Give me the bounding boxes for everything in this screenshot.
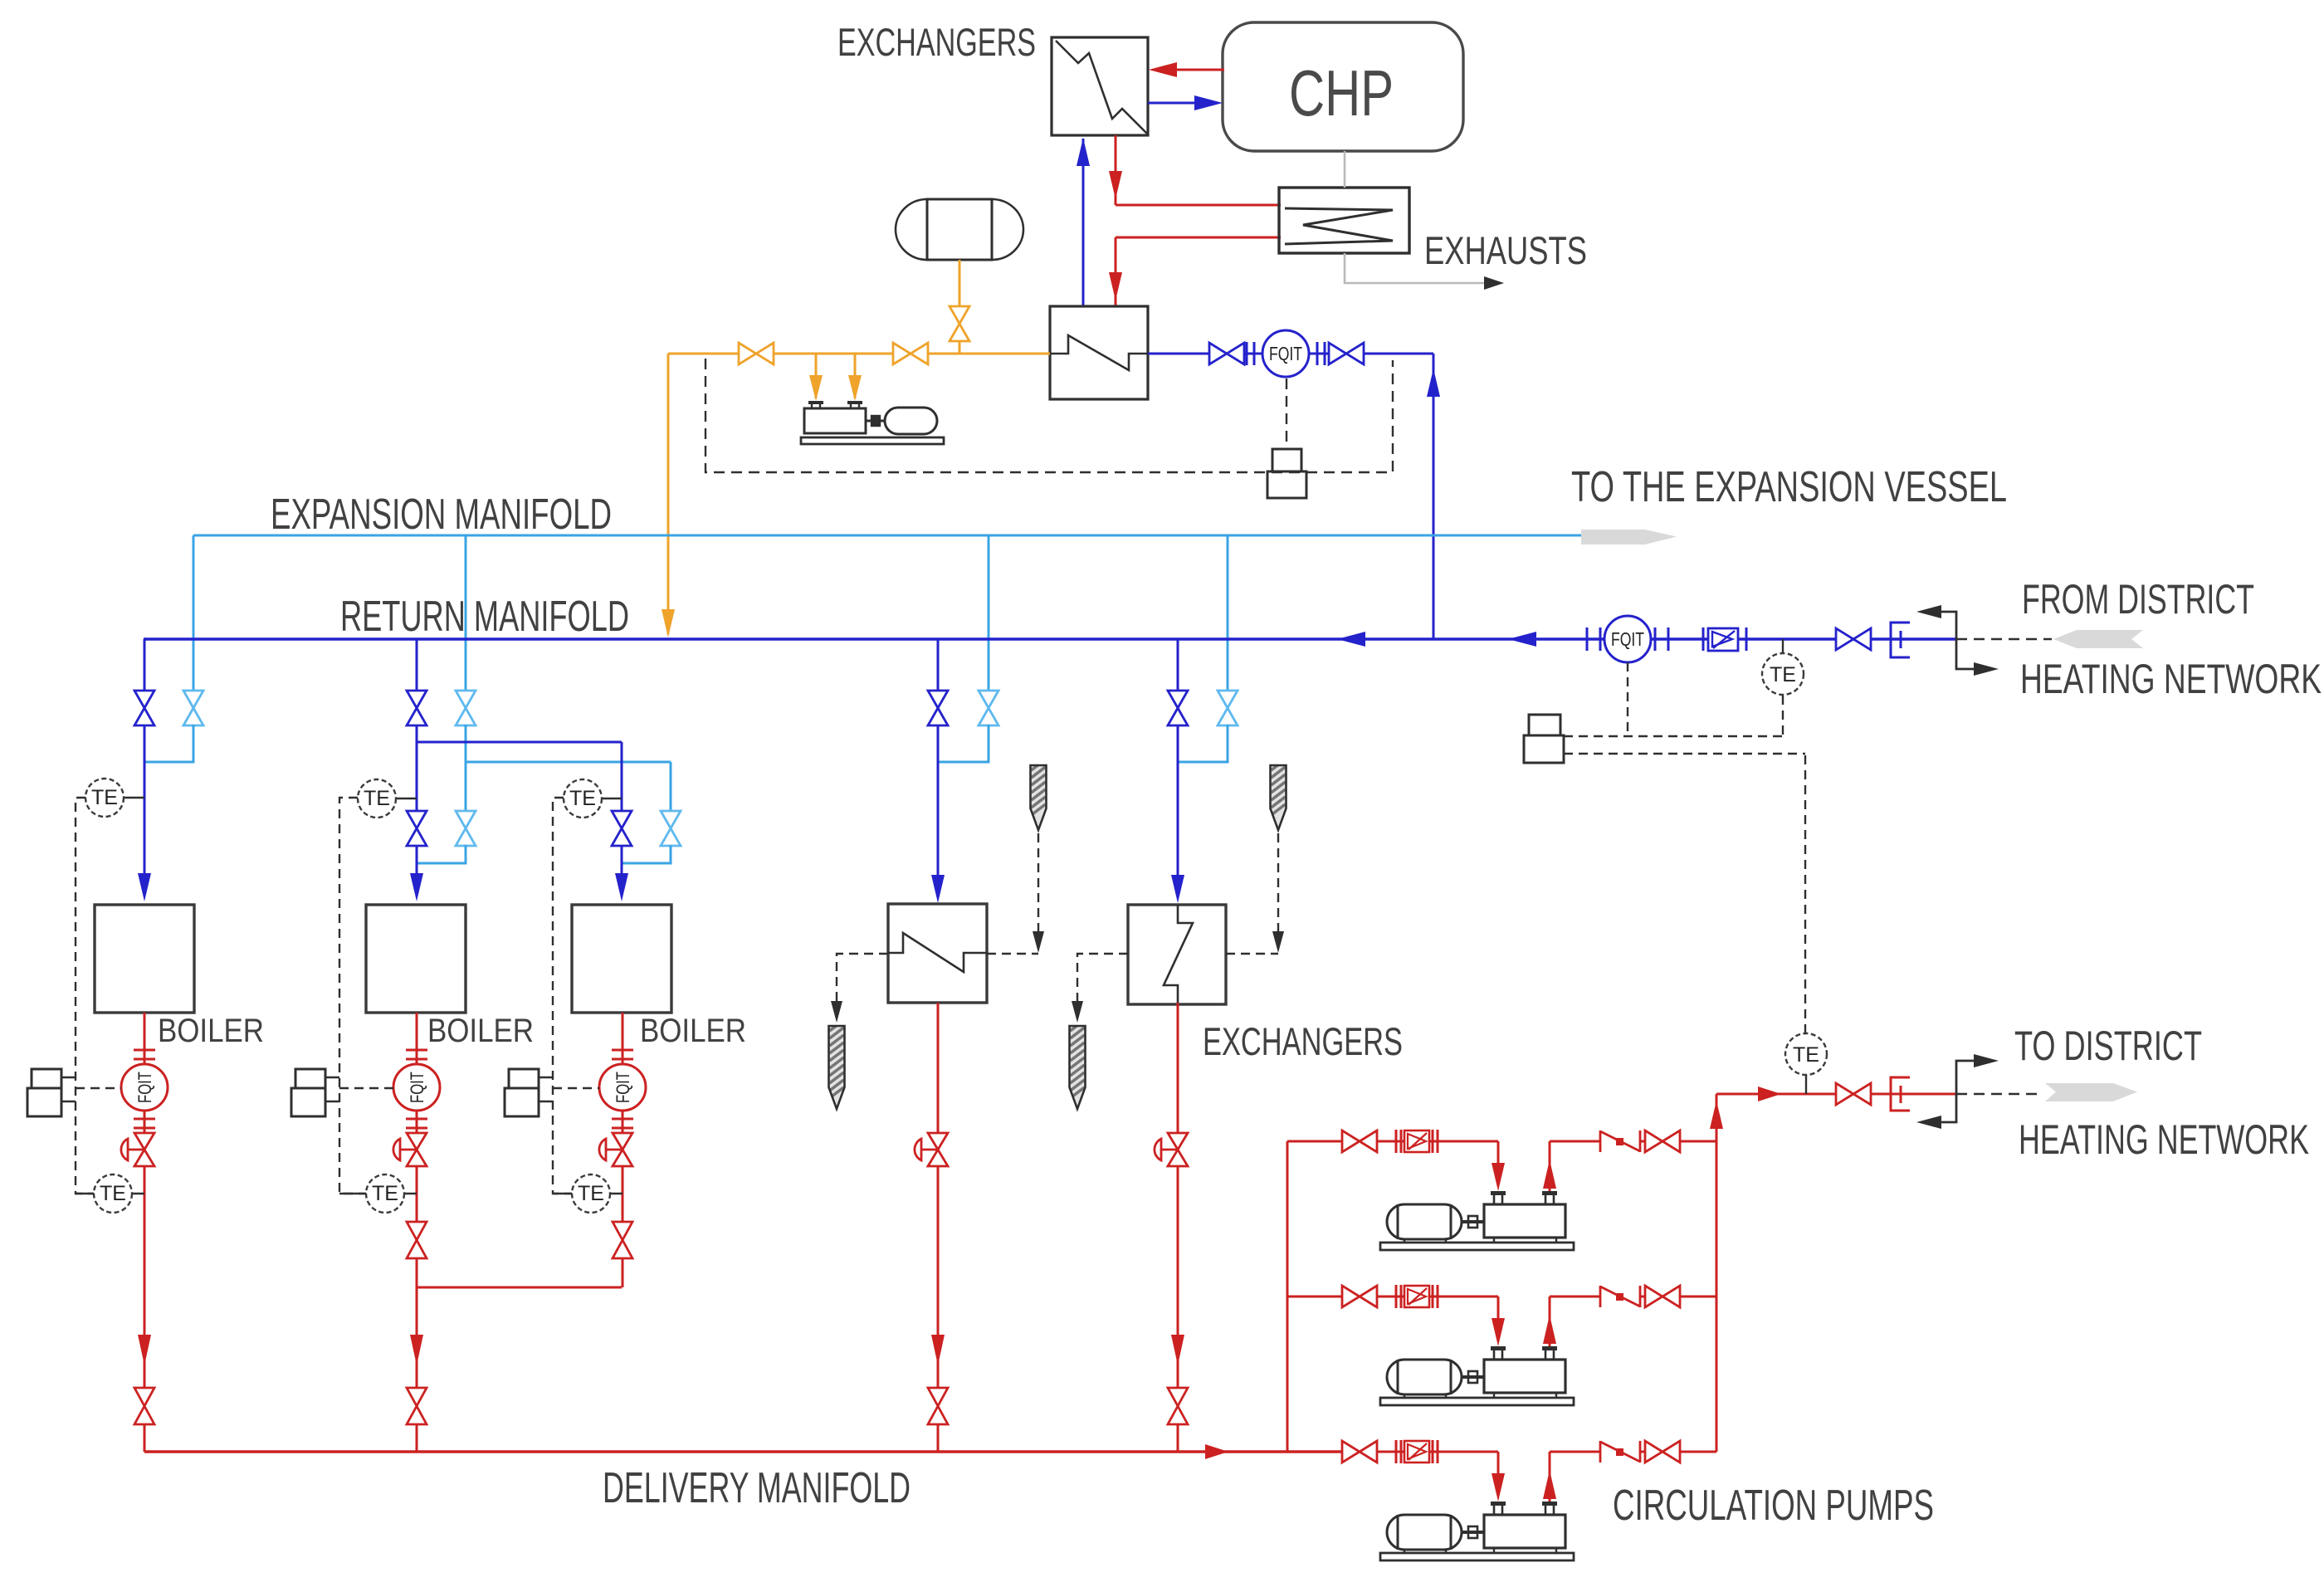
wire blue cross to boiler3 (417, 741, 622, 744)
pump baseplate row2 (1380, 1398, 1574, 1405)
balancing check valve (square) row2 (1404, 1286, 1429, 1307)
wire expansion drop boiler1 (193, 535, 195, 691)
wire boiler 2-3 merge (417, 1287, 622, 1289)
transmitter box boiler 2 (295, 1069, 325, 1088)
valve boiler 3 row2 (613, 1222, 632, 1258)
wire cold from exchanger to CHP (blue) (1148, 102, 1196, 105)
svg-text:HEATING NETWORK: HEATING NETWORK (2019, 1116, 2309, 1163)
arrow pump inlet row2 (1492, 1318, 1505, 1346)
arrow pump outlet row3 (1543, 1470, 1556, 1499)
arrow down exchanger A right (1033, 931, 1044, 953)
svg-text:TE: TE (91, 786, 118, 809)
wire pump outlet row2 (1549, 1296, 1551, 1346)
control valve exchanger A (915, 1139, 921, 1160)
arrow up on blue drop (1427, 369, 1440, 397)
flange ticks return meter left (1586, 627, 1589, 651)
valve blue 1 (1209, 343, 1244, 364)
valve light blue exchanger2 (1218, 691, 1238, 725)
flow meter FQIT (blue) (1262, 330, 1309, 377)
wire pump discharge spool row3 (1550, 1451, 1601, 1453)
TE to district (1805, 1075, 1807, 1094)
wire tank drop (orange) (959, 260, 961, 354)
balancing check valve (square) row1 (1404, 1130, 1429, 1152)
wire boiler 2 delivery pipe (416, 1013, 418, 1452)
arrow on return manifold A (1337, 632, 1365, 647)
valve boiler 2 row2 (407, 1222, 427, 1258)
wire pump discharge row2 (1680, 1296, 1716, 1298)
svg-text:TE: TE (1770, 663, 1796, 686)
valve light blue boiler2 row2 (456, 811, 476, 846)
boiler 1 box (95, 905, 194, 1013)
pump casing row3 (1484, 1515, 1565, 1548)
control valve boiler 3 (599, 1139, 606, 1160)
svg-text:EXPANSION MANIFOLD: EXPANSION MANIFOLD (271, 491, 612, 539)
dashed exchanger A right (987, 953, 1038, 955)
wire blue riser between exchangers (1082, 139, 1085, 306)
wire pump outlet row1 (1549, 1141, 1551, 1191)
transmitter box boiler 1 (32, 1069, 61, 1088)
valve blue boiler2 (407, 691, 427, 725)
valve pump suction row1 (1342, 1130, 1377, 1152)
expansion manifold pipe (193, 535, 1581, 537)
arrow pump outlet row1 (1543, 1160, 1556, 1189)
exchanger A box (888, 904, 987, 1003)
off-page arrow to district (2045, 1083, 2137, 1101)
arrow to district (1758, 1086, 1781, 1101)
svg-text:TE: TE (578, 1182, 604, 1205)
wire pump inlet row3 (1429, 1451, 1498, 1453)
svg-text:EXCHANGERS: EXCHANGERS (837, 20, 1036, 64)
dashed exchanger B right (1226, 953, 1278, 955)
wire boiler 1 delivery pipe (144, 1013, 146, 1452)
flange ticks boiler 2 lower (406, 1118, 427, 1121)
wire check to valve row3 (1640, 1451, 1646, 1453)
flange ticks pump suction row1 (1395, 1130, 1398, 1153)
dashed exchanger B left (1077, 954, 1128, 1014)
flow meter FQIT boiler 2 (393, 1064, 440, 1111)
arrow up into top exchanger (1077, 138, 1090, 166)
exhaust exchanger fin glyph (1285, 208, 1393, 244)
pump motor row1 (1387, 1204, 1462, 1239)
arrow pump inlet row1 (1492, 1163, 1505, 1191)
dashed exchanger A left (837, 954, 888, 1014)
wire exchanger A delivery (937, 1003, 940, 1452)
svg-text:FQIT: FQIT (134, 1072, 155, 1103)
arrow down exchanger B right (1272, 931, 1284, 953)
flange ticks 1 (1246, 342, 1248, 365)
arrow down into lower exchanger (1109, 272, 1122, 300)
arrow on return manifold B (1508, 632, 1536, 647)
pipe end sleeve (blue) (1891, 623, 1910, 657)
wire blue drop to return manifold (1433, 354, 1435, 639)
valve blue boiler1 (134, 691, 154, 725)
flow meter FQIT return (blue) (1604, 616, 1651, 662)
exchanger B box (1128, 905, 1226, 1004)
valve light blue boiler1 (183, 691, 203, 725)
TE return network (1782, 639, 1784, 654)
check valve pump row1 (1599, 1130, 1602, 1152)
pipe end sleeve (red) (1891, 1077, 1910, 1111)
dashed instrument column boiler 1 (76, 798, 94, 1194)
wire red drop to lower exchanger (1115, 237, 1117, 305)
pump feet row2 (1404, 1394, 1405, 1398)
arrow into boiler3 (615, 873, 628, 901)
wire expansion drop exchanger2 (1227, 535, 1229, 691)
valve boiler1 bottom (134, 1388, 154, 1424)
wire boiler2 feed (416, 725, 418, 812)
transmitter box boiler 3 (509, 1069, 539, 1088)
dashed TE column (1804, 754, 1806, 1033)
dashed control loop (burner interlock) (705, 359, 1393, 472)
wire expansion drop boiler2 (465, 535, 467, 691)
flange ticks pump suction row3 (1395, 1440, 1398, 1463)
flange ticks boiler 1 upper (134, 1049, 155, 1052)
svg-text:HEATING NETWORK: HEATING NETWORK (2020, 656, 2322, 702)
pump motor row2 (1387, 1360, 1462, 1394)
wire suction spool row1 (1377, 1140, 1404, 1143)
wire orange pump feed 1 (815, 354, 818, 398)
dashed instrument column boiler 3 (553, 798, 572, 1194)
valve blue exchanger2 (1168, 691, 1188, 725)
svg-text:EXCHANGERS: EXCHANGERS (1203, 1019, 1403, 1063)
valve exchanger B bottom (1168, 1388, 1188, 1424)
wire check to valve row1 (1640, 1140, 1646, 1143)
control valve boiler 1 (121, 1139, 128, 1160)
wire return drop exchanger1 (937, 639, 940, 691)
arrow into boiler2 (410, 873, 423, 901)
svg-text:TO DISTRICT: TO DISTRICT (2014, 1023, 2202, 1069)
svg-text:FROM DISTRICT: FROM DISTRICT (2022, 576, 2254, 623)
TE boiler3 upper (602, 798, 622, 799)
valve pump suction row2 (1342, 1286, 1377, 1307)
wire light blue boiler2 lower (465, 725, 467, 812)
svg-text:FQIT: FQIT (1611, 628, 1644, 650)
wire light blue drop boiler3 (670, 762, 672, 812)
wire return drop boiler1 (144, 639, 146, 691)
valve blue exchanger1 (928, 691, 948, 725)
exchanger A glyph (888, 933, 987, 972)
TE boiler 2 lower (339, 1193, 417, 1194)
pump coupling row3 (1462, 1531, 1484, 1534)
arrow to thermowell B-left (1072, 1001, 1083, 1023)
wire exchanger2 feed (1177, 725, 1179, 875)
flow meter FQIT boiler 3 (599, 1064, 646, 1111)
dashed transmitter runs (1627, 662, 1628, 736)
svg-text:FQIT: FQIT (613, 1072, 633, 1103)
wire suction spool row2 (1377, 1296, 1404, 1298)
pump feet row3 (1404, 1550, 1405, 1553)
arrow pump outlet row2 (1543, 1315, 1556, 1344)
wire boiler 3 delivery pipe (622, 1013, 624, 1287)
arrow exchanger A delivery (931, 1335, 945, 1365)
wire expansion drop exchanger1 (988, 535, 990, 691)
arrow boiler1 delivery (138, 1335, 151, 1365)
wire return drop exchanger2 (1177, 639, 1179, 691)
wire light blue elbow boiler2 (417, 845, 466, 863)
delivery manifold pipe (144, 1450, 1341, 1453)
wire boiler2 feed lower (416, 845, 418, 873)
svg-text:TE: TE (1793, 1043, 1819, 1067)
TE boiler2 upper (396, 798, 417, 799)
svg-text:TE: TE (364, 787, 390, 810)
wire boiler3 feed lower (621, 845, 623, 873)
wire pump suction stub row1 (1287, 1140, 1343, 1143)
TE boiler 3 lower (553, 1193, 622, 1194)
valve light blue boiler3 row2 (661, 811, 681, 846)
fuel pump nozzles (808, 401, 823, 404)
svg-text:EXHAUSTS: EXHAUSTS (1424, 228, 1587, 272)
fuel pump motor (885, 408, 937, 434)
valve exchanger A bottom (928, 1388, 948, 1424)
heat exchanger box (CHP top exchanger) (1052, 37, 1148, 135)
lower exchanger box (engine circuit) (1050, 306, 1148, 399)
off-page arrow from district (2053, 630, 2143, 648)
wire light blue cross to boiler3 (466, 761, 671, 764)
balancing check valve (square) row3 (1404, 1441, 1429, 1462)
flow meter FQIT boiler 1 (121, 1064, 168, 1111)
dashed FQIT to T1 (1286, 378, 1287, 449)
pump baseplate row1 (1380, 1243, 1574, 1250)
svg-text:FQIT: FQIT (407, 1072, 427, 1103)
svg-text:CHP: CHP (1289, 56, 1394, 129)
svg-text:DELIVERY MANIFOLD: DELIVERY MANIFOLD (603, 1464, 911, 1512)
valve under tank (orange) (950, 306, 969, 341)
TE boiler1 upper (124, 797, 144, 798)
wire check to valve row2 (1640, 1296, 1646, 1298)
flange ticks boiler 2 upper (406, 1049, 427, 1052)
pump suction riser (left collector) (1286, 1141, 1289, 1452)
dashed instrument column boiler 2 (339, 798, 366, 1194)
pump nozzles row2 (1491, 1346, 1506, 1350)
wire pump discharge spool row2 (1550, 1296, 1601, 1298)
valve pump discharge row3 (1645, 1441, 1680, 1462)
arrow exhaust outlet (black) (1484, 276, 1504, 290)
svg-text:TO THE EXPANSION VESSEL: TO THE EXPANSION VESSEL (1571, 463, 2007, 511)
pump baseplate row3 (1380, 1553, 1574, 1560)
check valve pump row3 (1599, 1441, 1602, 1462)
pump casing row2 (1484, 1360, 1565, 1393)
arrow up discharge collector (1710, 1101, 1723, 1129)
wire orange pump feed 2 (854, 354, 857, 398)
flow transmitter box T1 (1272, 449, 1301, 471)
arrow into exchanger1 (931, 875, 945, 903)
wire pump outlet row3 (1549, 1452, 1551, 1502)
check valve return (square) (1702, 627, 1705, 651)
fuel pump body (804, 408, 866, 433)
arrow orange pump feed 1 (809, 375, 823, 401)
pump nozzles row1 (1491, 1191, 1506, 1195)
fuel pump baseplate (801, 437, 944, 444)
wire pump discharge spool row1 (1550, 1140, 1601, 1143)
wire to district (1716, 1093, 1956, 1096)
valve blue network (1836, 628, 1871, 650)
wire blue drop boiler3 (621, 742, 623, 812)
valve light blue exchanger1 (979, 691, 998, 725)
wire red return from exhaust exchanger (1116, 237, 1281, 239)
arrow exchanger B delivery (1171, 1335, 1184, 1365)
dashed stub from district (1956, 638, 2052, 640)
valve pump discharge row2 (1645, 1286, 1680, 1307)
pump feet row1 (1404, 1239, 1405, 1243)
flange ticks pump suction row2 (1395, 1285, 1398, 1308)
wire boiler1 feed (144, 725, 146, 873)
svg-text:TE: TE (100, 1182, 126, 1205)
pump nozzles row3 (1491, 1502, 1506, 1506)
valve pump suction row3 (1342, 1441, 1377, 1462)
valve light blue boiler2 (456, 691, 476, 725)
pump casing row1 (1484, 1204, 1565, 1238)
wire orange drop to return manifold (667, 354, 670, 634)
pump discharge collector (1716, 1094, 1718, 1452)
black branch from district (1941, 612, 1956, 639)
svg-text:TE: TE (372, 1182, 398, 1205)
wire orange fuel header (668, 353, 1050, 355)
valve blue boiler3 row2 (612, 811, 632, 846)
fuel pump coupling (866, 420, 885, 422)
expansion tank (capsule vessel) (927, 199, 992, 260)
arrow into CHP (blue, right) (1194, 95, 1223, 110)
svg-text:CIRCULATION PUMPS: CIRCULATION PUMPS (1613, 1482, 1934, 1530)
svg-text:BOILER: BOILER (640, 1013, 746, 1049)
wire blue from lower exchanger (1148, 353, 1433, 355)
black branch to district (1956, 1061, 1974, 1094)
pump coupling row1 (1462, 1220, 1484, 1223)
wire pump suction stub row2 (1287, 1296, 1343, 1298)
wire exchanger1 feed (937, 725, 940, 875)
svg-text:BOILER: BOILER (427, 1013, 534, 1049)
arrow down on red drop (1109, 171, 1122, 199)
flange ticks boiler 3 upper (612, 1049, 633, 1052)
svg-text:TE: TE (569, 787, 596, 810)
wire suction spool row3 (1377, 1451, 1404, 1453)
control valve boiler 2 (393, 1139, 400, 1160)
valve orange 1 (739, 343, 774, 364)
wire red to exhaust exchanger (1116, 204, 1281, 207)
pump coupling row2 (1462, 1375, 1484, 1379)
wire expansion elbow boiler1 (144, 725, 193, 762)
flange ticks return meter right (1654, 627, 1657, 651)
boiler 2 box (366, 905, 466, 1013)
valve blue boiler2 row2 (407, 811, 427, 846)
arrow into exchanger (red, left) (1149, 62, 1177, 77)
wire return drop boiler2 (416, 639, 418, 691)
arrow pump inlet row3 (1492, 1473, 1505, 1502)
wire pump inlet row2 (1429, 1296, 1498, 1298)
transmitter box network (1529, 715, 1560, 735)
exchanger B glyph (1164, 905, 1193, 1004)
return manifold pipe (144, 637, 1956, 640)
arrow on delivery manifold (1205, 1444, 1228, 1459)
arrow into exchanger2 (1171, 875, 1184, 903)
flange ticks 2 (1316, 342, 1319, 365)
CHP unit rounded box (1223, 22, 1463, 151)
wire exchanger B delivery (1177, 1003, 1179, 1452)
svg-text:BOILER: BOILER (158, 1013, 264, 1049)
lower exchanger zigzag glyph (1050, 335, 1148, 370)
boiler 3 box (572, 905, 671, 1013)
TE boiler 1 lower (76, 1193, 144, 1194)
control valve exchanger B (1155, 1139, 1161, 1160)
valve pump discharge row1 (1645, 1130, 1680, 1152)
valve blue 2 (1329, 343, 1364, 364)
wire CHP to exhaust box (gray) (1344, 151, 1346, 188)
wire hot from CHP to exchanger (red) (1174, 69, 1224, 71)
svg-text:FQIT: FQIT (1269, 343, 1302, 364)
arrow boiler2 delivery (410, 1335, 423, 1365)
exchanger zigzag glyph (1056, 41, 1147, 134)
wire pump discharge row1 (1680, 1140, 1716, 1143)
arrow to thermowell A-left (831, 1001, 842, 1023)
exhaust gas heat exchanger box (1279, 188, 1409, 253)
valve red to district (1836, 1083, 1871, 1105)
dashed stub to district (1956, 1093, 2043, 1095)
check valve pump row2 (1599, 1286, 1602, 1307)
valve orange 2 (893, 343, 928, 364)
wire pump inlet row1 (1429, 1140, 1498, 1143)
valve boiler2 bottom (407, 1388, 427, 1424)
flange ticks boiler 3 lower (612, 1118, 633, 1121)
arrow orange into return manifold (662, 609, 675, 637)
flange ticks boiler 1 lower (134, 1118, 155, 1121)
wire exhaust outlet (gray) (1345, 253, 1491, 283)
pump motor row3 (1387, 1515, 1462, 1550)
wire elbow exchanger2 (1178, 725, 1228, 762)
wire light blue elbow boiler3 (622, 845, 671, 863)
wire red drop from top exchanger (1115, 135, 1117, 205)
arrow into boiler1 (138, 873, 151, 901)
wire pump discharge row3 (1680, 1451, 1716, 1453)
wire elbow exchanger1 (938, 725, 989, 762)
off-page arrow to expansion vessel (1581, 530, 1677, 544)
svg-text:RETURN MANIFOLD: RETURN MANIFOLD (340, 593, 629, 641)
arrow orange pump feed 2 (848, 375, 862, 401)
